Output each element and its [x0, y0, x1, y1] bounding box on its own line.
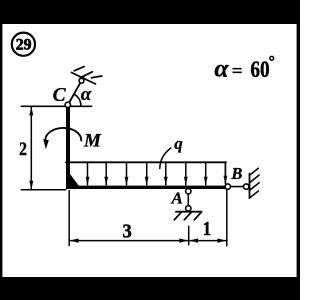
dim arrowhead right (points right) [217, 238, 226, 242]
border right [297, 0, 300, 300]
inclined surface line of support C [72, 73, 96, 85]
svg-text:29: 29 [16, 36, 32, 53]
hatch 2 of support C [81, 72, 93, 78]
hatch 1 of support C [74, 67, 84, 71]
extension line below A [188, 226, 190, 245]
svg-text:=: = [232, 61, 243, 82]
support A hatch 1 [174, 212, 181, 220]
distributed load top line [66, 161, 226, 163]
border bottom [0, 277, 300, 300]
dimension 2 top arrowhead [29, 107, 33, 116]
svg-text:60: 60 [250, 57, 269, 83]
horizontal reference line at C [21, 105, 91, 107]
extension line below B [226, 190, 228, 246]
load arrow 2 [104, 162, 108, 185]
dimension 2 bottom extension line [21, 189, 66, 191]
dim arrowhead left (points left) [70, 238, 79, 242]
leader line for q [160, 148, 171, 169]
angle arc alpha at C [74, 94, 81, 105]
degree symbol [270, 56, 274, 60]
hatch 3 of support C [92, 76, 102, 78]
load arrow 7 [204, 162, 208, 185]
load arrow 6 [184, 162, 188, 185]
border left [0, 0, 2, 300]
support B wall line [249, 174, 251, 199]
support B link [231, 186, 244, 188]
svg-text:1: 1 [203, 218, 212, 240]
support A lower hinge circle [186, 206, 191, 211]
support A hinge circle under beam [186, 189, 191, 194]
svg-text:C: C [53, 85, 67, 106]
svg-text:q: q [174, 134, 183, 153]
dimension 2 bottom arrowhead [29, 181, 33, 190]
load arrow 5 [164, 162, 168, 185]
support B hatch 2 [250, 175, 260, 183]
dimension 2 vertical line [30, 107, 32, 189]
hinge circle at C [65, 102, 70, 107]
support A link [187, 194, 189, 206]
load arrow 8 (right edge) [224, 162, 228, 184]
svg-text:A: A [171, 189, 183, 208]
load arrow 4 [145, 162, 149, 185]
load arrow 3 [125, 162, 129, 185]
hinge circle at B (beam end) [225, 184, 230, 189]
problem number badge circle [12, 33, 35, 56]
horizontal beam [66, 186, 226, 189]
svg-text:3: 3 [122, 220, 131, 242]
moment arc M [45, 128, 81, 142]
support A ground line [176, 211, 202, 213]
dim arrowhead mid-left (points right) [179, 238, 188, 242]
support A hatch 3 [194, 212, 201, 220]
vertical member CD [66, 107, 70, 189]
svg-text:M: M [83, 131, 102, 152]
svg-text:α: α [214, 54, 229, 83]
corner fillet [70, 174, 79, 186]
dim arrowhead mid-right (points left) [189, 238, 198, 242]
support A hatch 2 [184, 212, 191, 220]
svg-text:2: 2 [19, 139, 27, 160]
roller circle of support C [79, 78, 84, 83]
support B hatch 4 [250, 191, 259, 198]
load arrow 1 [86, 162, 90, 185]
dimension line 3 and 1 [69, 240, 227, 242]
moment arrowhead [43, 139, 49, 149]
extension line below corner [68, 191, 70, 246]
support B roller circle [244, 184, 249, 189]
link bar of support C [68, 77, 84, 105]
svg-text:B: B [230, 164, 242, 183]
support B hatch 1 [250, 168, 259, 175]
support B hatch 3 [250, 183, 260, 191]
svg-text:α: α [81, 84, 92, 105]
border top [0, 0, 300, 24]
